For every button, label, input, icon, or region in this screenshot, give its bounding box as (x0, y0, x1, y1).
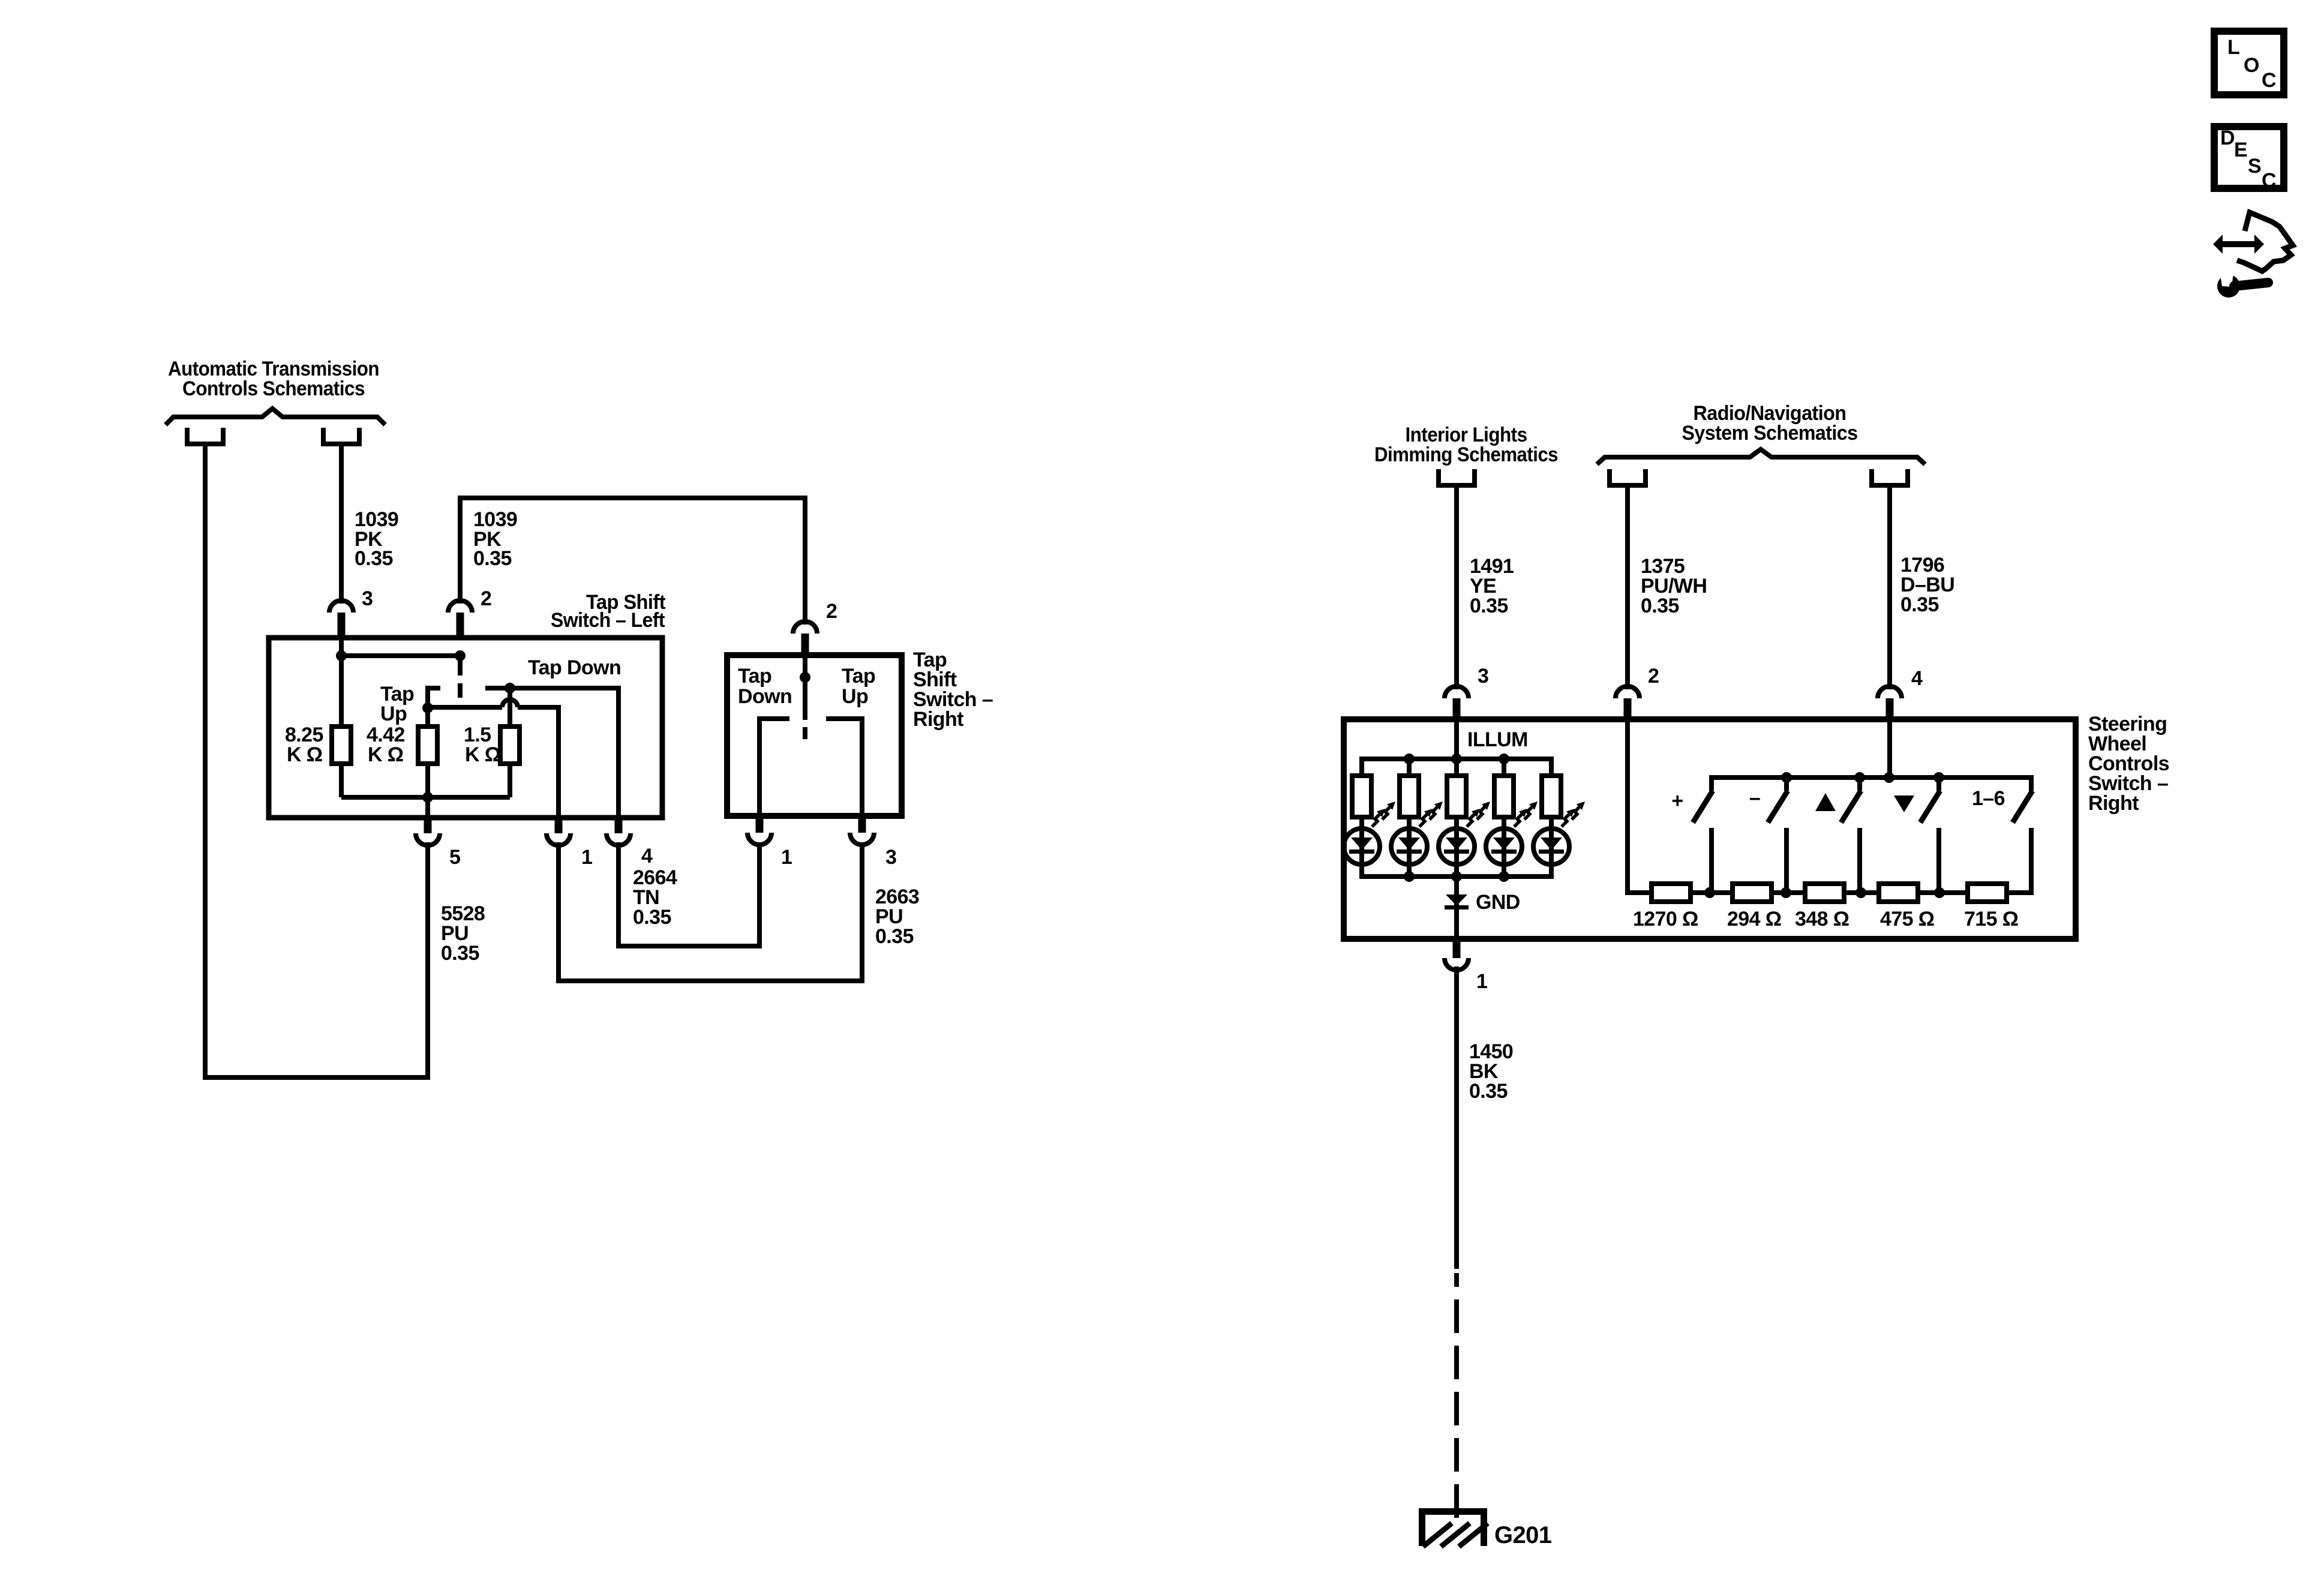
svg-text:Tap: Tap (738, 665, 771, 688)
seek up switch (1857, 778, 1862, 791)
svg-text:Up: Up (380, 703, 407, 725)
brace under Radio/Navigation label (1597, 449, 1925, 464)
seek down switch (1936, 778, 1941, 791)
svg-text:ILLUM: ILLUM (1467, 728, 1528, 751)
svg-text:475 Ω: 475 Ω (1880, 908, 1934, 930)
LED branch 5: dropper resistor (1549, 759, 1554, 776)
svg-text:GND: GND (1476, 891, 1520, 914)
LED D1 (illumination LED) (1344, 828, 1380, 864)
svg-text:Tap Down: Tap Down (528, 656, 621, 679)
svg-text:System Schematics: System Schematics (1682, 422, 1858, 445)
svg-text:S: S (2248, 155, 2261, 178)
LED bottom bus rail (1359, 874, 1554, 879)
service icon: wrench (2217, 275, 2240, 298)
connector pin 1 (Tap Shift Switch - Left) (547, 833, 571, 845)
junction on resistor ladder rail (1780, 887, 1791, 898)
volume up switch (+) (1693, 791, 1713, 822)
junction: Tap Up node (422, 703, 433, 713)
wire: ground wire dashed continuation (1454, 1273, 1459, 1527)
svg-text:3: 3 (1478, 665, 1488, 688)
svg-text:1: 1 (1476, 970, 1487, 993)
svg-text:0.35: 0.35 (355, 547, 393, 570)
svg-text:Up: Up (842, 685, 868, 708)
LED branch 2: wire through LED (1407, 817, 1412, 876)
wire: pin 2 of left switch up, across, down to pin 2 of right switch (460, 498, 805, 625)
wire: pin 4 down to switch top rail (1887, 719, 1892, 778)
junction on resistor ladder rail (1855, 887, 1866, 898)
svg-text:Down: Down (738, 685, 792, 708)
wire: internal bus pin3 to pin2 (node) (341, 653, 460, 658)
junction on LED top rail (1404, 754, 1415, 764)
connector pin 3 (Steering Wheel Controls Switch) (1445, 686, 1469, 698)
connector pin 3 (Tap Shift Switch - Right) (850, 833, 874, 845)
wire: left pin 1 down, across, up to right switch pin 3 (559, 842, 862, 981)
junction on resistor ladder rail (1704, 887, 1715, 898)
service icon: double arrow (2213, 235, 2264, 254)
LED branch 4: dropper resistor (1502, 759, 1506, 776)
svg-text:0.35: 0.35 (1641, 595, 1679, 617)
svg-text:1: 1 (581, 846, 592, 869)
svg-text:K Ω: K Ω (287, 743, 322, 766)
label: seek up triangle (1815, 793, 1836, 811)
LOC legend box (2214, 31, 2284, 95)
svg-text:0.35: 0.35 (1470, 595, 1508, 617)
svg-text:1270 Ω: 1270 Ω (1633, 908, 1698, 930)
Tap Up contact of left switch (428, 688, 440, 708)
junction on switch top rail (1854, 772, 1865, 783)
connector pin 5 (Tap Shift Switch - Left) (416, 833, 440, 845)
junction on LED top rail (1451, 754, 1462, 764)
svg-text:715 Ω: 715 Ω (1964, 908, 2018, 930)
wire: radio off-page down to pin 2 (1625, 485, 1630, 689)
junction on switch top rail (1933, 772, 1944, 783)
wire: off-page connector B down to pin 3 connector (339, 444, 344, 604)
svg-text:K Ω: K Ω (465, 743, 500, 766)
svg-text:1: 1 (781, 846, 792, 869)
connector pin 1 (Steering Wheel Controls Switch) (1445, 958, 1469, 970)
svg-text:4: 4 (641, 845, 653, 867)
svg-text:0.35: 0.35 (875, 925, 914, 948)
connector pin 4 (Tap Shift Switch - Left) (606, 833, 630, 845)
junction on resistor ladder rail (1934, 887, 1945, 898)
resistor 715 ohm (1968, 884, 2007, 902)
svg-text:–: – (1749, 787, 1760, 809)
resistor 1270 ohm (1652, 884, 1691, 902)
wire: Tap Up node down to resistor 4.42K (425, 708, 430, 727)
wire: resistor bottom rail (341, 795, 510, 800)
LED D4 (illumination LED) (1486, 828, 1522, 864)
svg-text:0.35: 0.35 (473, 547, 512, 570)
Tap Shift Switch - Right box (727, 655, 902, 816)
LED branch 3: dropper resistor (1454, 759, 1459, 776)
svg-text:348 Ω: 348 Ω (1795, 908, 1849, 930)
LED branch 2: dropper resistor (1407, 759, 1412, 776)
wire: left pin 4 down, across, up to right switch pin 1 (618, 842, 759, 946)
resistor 1.5K (500, 727, 520, 764)
volume down switch (-) (1784, 778, 1789, 791)
LED D4 light arrows (1514, 809, 1527, 827)
Tap Shift Switch - Left box (269, 638, 662, 818)
wire: resistor 1.5K to bottom rail (508, 764, 512, 797)
right switch common dashed segment (803, 727, 807, 739)
svg-text:4: 4 (1911, 667, 1923, 690)
Steering Wheel Controls Switch - Right box (1344, 719, 2076, 939)
off-page connector (Radio/Navigation, left) (1610, 469, 1646, 485)
svg-text:Tap: Tap (842, 665, 875, 688)
resistor 475 ohm (1879, 884, 1918, 902)
resistor 348 ohm (1805, 884, 1844, 902)
wire: pin 2 down to resistor ladder rail (1625, 719, 1630, 895)
Tap Up contact to pin 3 (right switch) (826, 719, 862, 816)
switch common dashed segment (movable contact) (458, 683, 463, 698)
LED D2 light arrows (1419, 809, 1433, 827)
Tap Down contact to pin 1 (right switch) (759, 719, 789, 816)
LED D3 (illumination LED) (1439, 828, 1475, 864)
svg-text:2: 2 (1648, 665, 1659, 688)
junction at pin 2 branch (455, 650, 466, 661)
off-page connector B (Automatic Transmission Controls Schematics, right) (323, 428, 359, 444)
svg-text:+: + (1671, 789, 1683, 812)
junction on switch top rail (1781, 772, 1792, 783)
svg-text:1–6: 1–6 (1972, 787, 2005, 810)
svg-text:O: O (2244, 54, 2259, 77)
connector pin 2 (Tap Shift Switch - Right) (793, 622, 817, 634)
junction on LED bottom rail (1404, 871, 1415, 882)
ground G201 symbol (1419, 1508, 1487, 1546)
junction: bottom rail to pin 5 (422, 792, 433, 803)
svg-text:3: 3 (362, 587, 373, 610)
svg-text:Controls Schematics: Controls Schematics (182, 377, 365, 400)
svg-text:D: D (2220, 127, 2235, 149)
wire: dimming off-page down to pin 3 (1454, 485, 1459, 689)
svg-text:0.35: 0.35 (633, 906, 671, 929)
LED branch 3: wire through LED (1454, 817, 1459, 876)
svg-text:2: 2 (826, 600, 837, 623)
switch top rail (1712, 778, 2031, 791)
wire: bottom rail down to pin 5 (425, 797, 430, 818)
svg-text:0.35: 0.35 (1900, 593, 1939, 616)
junction on LED bottom rail (1499, 871, 1509, 882)
LED branch 1: dropper resistor (1359, 759, 1364, 776)
resistor 294 ohm (1733, 884, 1771, 902)
svg-text:G201: G201 (1494, 1522, 1552, 1548)
LED branch 1: wire through LED (1359, 817, 1364, 876)
wire: pin 3 down to resistor 8.25K (339, 638, 344, 727)
diode (GND polarity diode) (1446, 894, 1467, 906)
svg-text:E: E (2234, 139, 2247, 161)
svg-text:294 Ω: 294 Ω (1727, 908, 1781, 930)
LED top bus rail (1359, 757, 1554, 761)
wire: Tap Down node down to resistor 1.5K (508, 688, 512, 727)
junction at pin 3 branch (336, 650, 347, 661)
preset switch (1-6) (2013, 791, 2032, 822)
svg-text:2: 2 (481, 587, 491, 610)
LED D3 light arrows (1467, 809, 1480, 827)
svg-text:0.35: 0.35 (1469, 1080, 1508, 1103)
junction on switch top rail (1884, 772, 1894, 783)
LED D5 (illumination LED) (1533, 828, 1569, 864)
brace under Automatic Transmission label (166, 409, 385, 425)
wire: off-page connector A down, across bottom, up to pin 5 (205, 444, 428, 1077)
connector pin 1 (Tap Shift Switch - Right) (747, 833, 771, 845)
wire: LED bottom rail to GND diode (1454, 876, 1459, 939)
label: seek down triangle (1894, 795, 1914, 812)
svg-text:Switch – Left: Switch – Left (551, 609, 665, 632)
LED D1 light arrows (1372, 809, 1385, 827)
LED D5 light arrows (1562, 809, 1575, 827)
wire: resistor 4.42K to bottom rail (425, 764, 430, 797)
DESC legend box (2214, 127, 2284, 188)
svg-text:0.35: 0.35 (441, 942, 479, 965)
connector pin 2 (Tap Shift Switch - Left) (448, 601, 472, 613)
wire: switch common (solid part) from pin 2 (458, 656, 463, 676)
service icon: panel outline (2237, 212, 2293, 271)
connector pin 3 (Tap Shift Switch - Left) (329, 601, 353, 613)
LED branch 4: wire through LED (1502, 817, 1506, 876)
junction on LED top rail (1499, 754, 1509, 764)
wire: Tap Down contact to pin 4 corner (485, 688, 618, 818)
off-page connector (Radio/Navigation, right) (1872, 469, 1908, 485)
svg-text:C: C (2262, 69, 2276, 92)
svg-text:Right: Right (913, 708, 963, 731)
off-page connector A (Automatic Transmission Controls Schematics, left) (187, 428, 223, 444)
junction: Tap Down node (505, 683, 515, 694)
resistor 4.42K (418, 727, 437, 764)
svg-text:Right: Right (2088, 792, 2139, 815)
junction on right switch common (800, 672, 810, 683)
svg-text:Dimming Schematics: Dimming Schematics (1374, 443, 1558, 466)
svg-text:5: 5 (449, 846, 460, 869)
svg-text:K Ω: K Ω (368, 743, 403, 766)
connector pin 2 (Steering Wheel Controls Switch) (1616, 686, 1640, 698)
wire: Tap Up node to pin 1 with crossover hop (428, 705, 502, 710)
LED D2 (illumination LED) (1391, 828, 1427, 864)
wire: resistor 8.25K to bottom rail (339, 764, 344, 797)
LED branch 5: wire through LED (1549, 817, 1554, 876)
wire: pin 1 ground wire (solid part) (1454, 966, 1459, 1269)
svg-text:3: 3 (885, 846, 896, 869)
junction on LED bottom rail (1451, 871, 1462, 882)
resistor ladder bottom rail (1625, 890, 2034, 895)
wire: radio off-page down to pin 4 (1887, 485, 1892, 689)
wire: ILLUM node from pin 3 into LED bus (1454, 719, 1459, 759)
svg-text:C: C (2262, 169, 2276, 192)
svg-text:L: L (2227, 36, 2239, 59)
wire: right switch common (solid part) (803, 658, 807, 720)
off-page connector (Interior Lights Dimming Schematics) (1439, 469, 1475, 485)
resistor 8.25K (332, 727, 351, 764)
connector pin 4 (Steering Wheel Controls Switch) (1878, 686, 1902, 698)
